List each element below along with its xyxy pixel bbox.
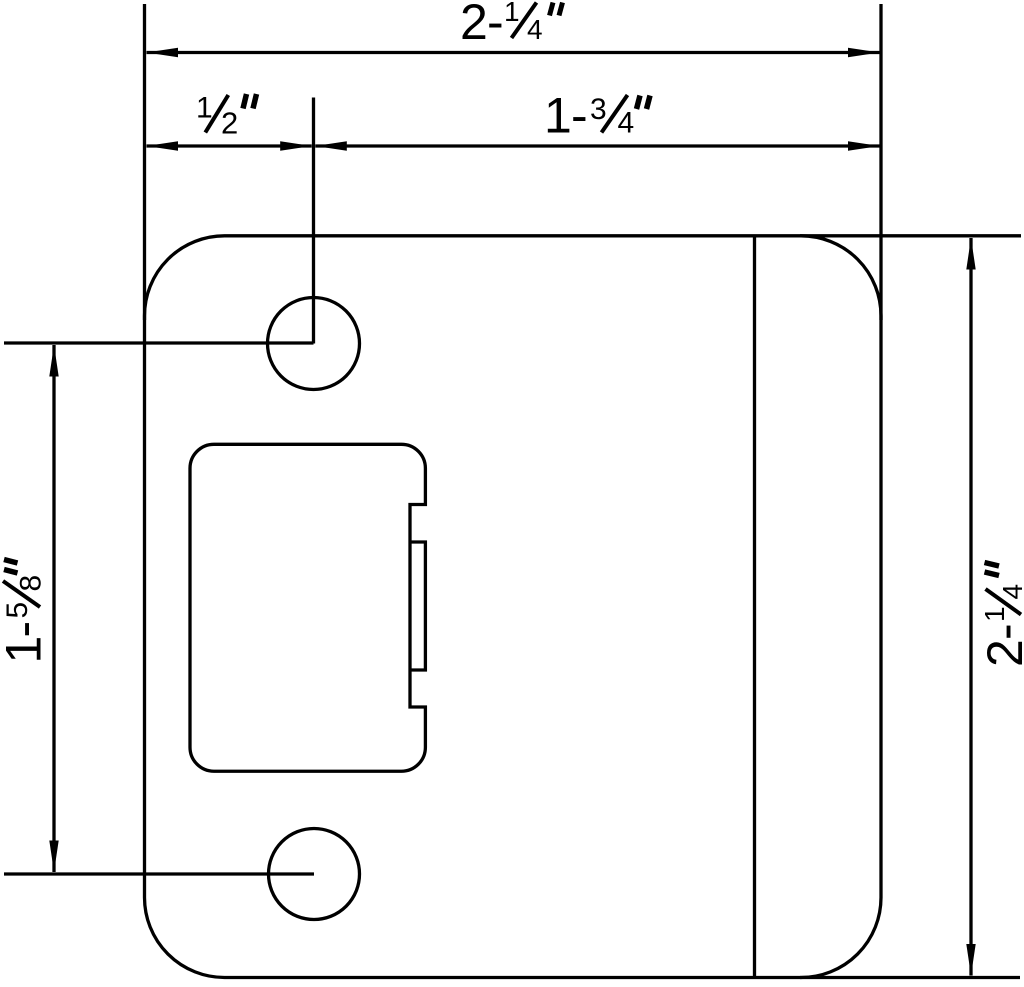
arrowhead 1-3/4-dim right (848, 141, 880, 150)
svg-text:2: 2 (221, 105, 238, 140)
svg-text:3: 3 (590, 93, 607, 126)
label 1-5/8 left rotated (0, 560, 52, 664)
top screw hole (268, 298, 360, 390)
bottom screw hole (269, 829, 360, 920)
svg-text:8: 8 (15, 575, 48, 592)
mid dimension line 1/2 (147, 144, 312, 147)
svg-text:5: 5 (1, 602, 34, 619)
arrowhead left-dim down (49, 841, 58, 873)
arrowhead half-dim right (280, 141, 312, 150)
hole center extension line (312, 98, 315, 344)
svg-text:-: - (487, 0, 504, 50)
svg-text:2: 2 (977, 639, 1024, 667)
arrowhead half-dim left (147, 141, 179, 150)
latch cutout tab (410, 542, 425, 670)
svg-text:-: - (571, 88, 588, 144)
svg-text:1: 1 (196, 92, 213, 125)
arrowhead left-dim up (49, 345, 58, 377)
latch cutout (190, 444, 425, 771)
top hole center horizontal line (4, 341, 314, 344)
bottom hole center horizontal line (4, 872, 314, 875)
svg-text:1: 1 (0, 636, 52, 664)
arrowhead right-dim up (966, 238, 975, 270)
svg-text:1: 1 (544, 88, 572, 144)
svg-text:1: 1 (979, 606, 1010, 622)
label 1-3/4 (544, 88, 650, 144)
svg-text:2: 2 (460, 0, 488, 50)
right dimension line 2-1/4 (969, 238, 972, 976)
arrowhead top-dim right (848, 48, 880, 57)
right extension line (879, 4, 882, 320)
top dimension line 2-1/4 (147, 51, 880, 54)
svg-text:-: - (977, 623, 1024, 640)
arrowhead 1-3/4-dim left (315, 141, 347, 150)
top edge extension (right) (800, 234, 1021, 237)
lip fold line (753, 236, 756, 978)
mid dimension line 1-3/4 (315, 144, 879, 147)
label 1/2 (196, 92, 257, 141)
arrowhead right-dim down (966, 944, 975, 976)
svg-text:4: 4 (618, 107, 635, 140)
left dimension line 1-5/8 (52, 345, 55, 872)
left extension line (143, 4, 146, 320)
svg-text:-: - (0, 621, 52, 638)
svg-text:4: 4 (997, 584, 1024, 600)
label 2-1/4 top (460, 0, 563, 50)
svg-text:4: 4 (527, 14, 543, 45)
arrowhead top-dim left (147, 48, 179, 57)
bottom edge extension (right) (800, 976, 1020, 979)
svg-text:1: 1 (504, 0, 520, 27)
plate outline (145, 236, 882, 978)
label 2-1/4 right rotated (977, 563, 1024, 668)
